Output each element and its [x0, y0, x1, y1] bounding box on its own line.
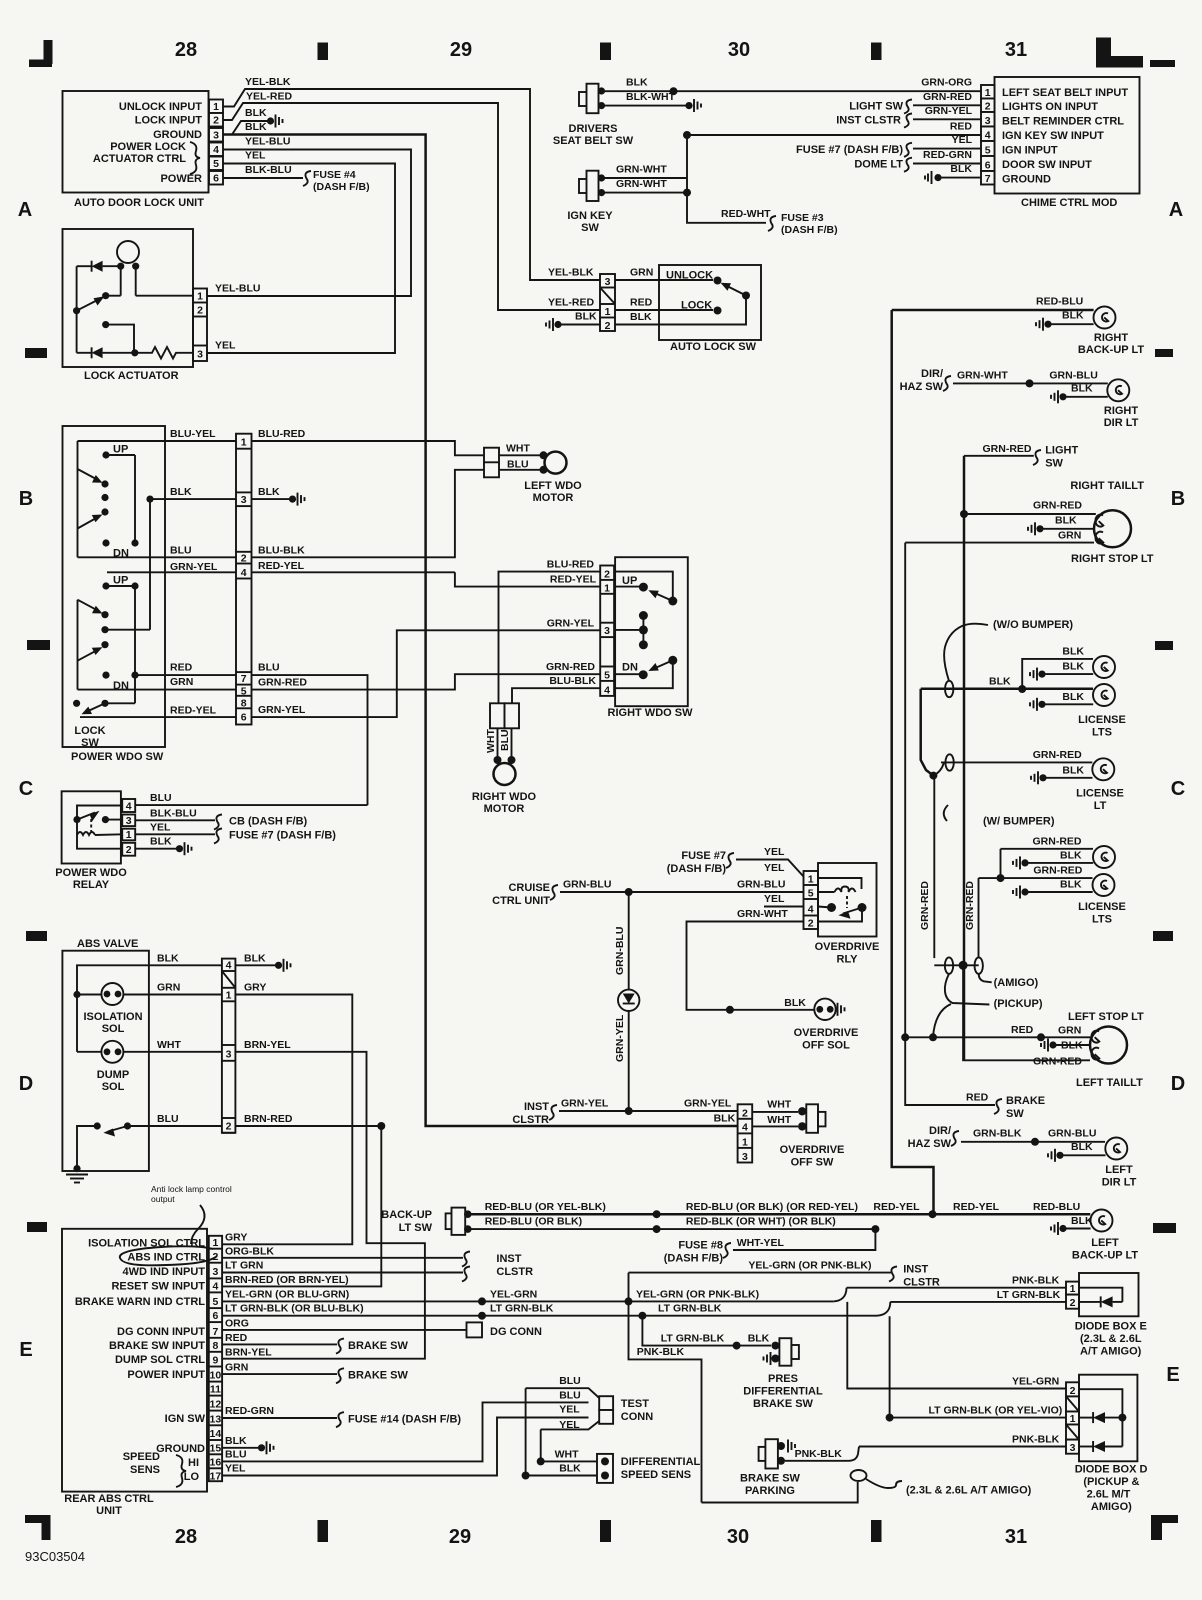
chime pin 5	[981, 141, 995, 156]
svg-text:BACK-UP LT: BACK-UP LT	[1078, 344, 1144, 356]
svg-text:DIFFERENTIAL: DIFFERENTIAL	[621, 1456, 701, 1468]
svg-text:BRN-YEL: BRN-YEL	[225, 1347, 272, 1359]
svg-text:DG CONN: DG CONN	[490, 1326, 542, 1338]
svg-text:4: 4	[226, 960, 232, 972]
od rly switch dots	[827, 903, 836, 912]
curve to PICKUP label	[945, 974, 990, 1005]
svg-text:2: 2	[213, 115, 219, 127]
wire BLK + ground right back-up	[1036, 318, 1052, 331]
edge bar right AB	[1155, 349, 1173, 357]
svg-text:1: 1	[985, 87, 991, 99]
svg-text:D: D	[19, 1073, 33, 1095]
svg-text:RIGHT WDO: RIGHT WDO	[472, 791, 537, 803]
wire BLK + ground left back-up	[1051, 1222, 1067, 1235]
wire GRN pin5 left	[78, 689, 237, 691]
svg-text:ORG-BLK: ORG-BLK	[225, 1245, 274, 1257]
svg-text:B: B	[19, 488, 33, 510]
svg-text:1: 1	[226, 989, 232, 1001]
dg conn box	[467, 1322, 483, 1337]
svg-text:12: 12	[210, 1399, 222, 1411]
svg-text:RED-BLU: RED-BLU	[1036, 296, 1083, 308]
svg-text:5: 5	[212, 1296, 218, 1308]
junction dot BLK	[146, 496, 153, 503]
wire WHT dump sol to pin3	[77, 1051, 101, 1053]
svg-text:2: 2	[985, 100, 991, 112]
svg-text:RED-YEL: RED-YEL	[258, 560, 305, 572]
svg-text:1: 1	[197, 291, 203, 303]
auto door lock unit box	[63, 91, 209, 193]
wire BRN-RED pin2 down to rear abs pin4	[222, 1126, 381, 1286]
svg-text:RIGHT WDO SW: RIGHT WDO SW	[608, 707, 694, 719]
svg-text:AMIGO): AMIGO)	[1091, 1501, 1132, 1513]
svg-text:E: E	[1166, 1364, 1179, 1386]
svg-text:BLK: BLK	[245, 121, 267, 133]
wire RED to chime pin4	[687, 134, 981, 136]
wire GRN-YEL pin6 to right wdo sw pin3	[252, 630, 601, 717]
svg-text:17: 17	[210, 1470, 222, 1482]
svg-text:RED: RED	[225, 1332, 248, 1344]
svg-text:BLK-BLU: BLK-BLU	[150, 807, 197, 819]
svg-text:GRN-BLK: GRN-BLK	[973, 1127, 1022, 1139]
svg-text:GRN-BLU: GRN-BLU	[563, 879, 611, 891]
wire GRN-RED to right stop lt	[964, 513, 1096, 515]
wire BLK pin15 to ground	[222, 1447, 258, 1449]
svg-text:WHT: WHT	[555, 1448, 579, 1460]
right wdo motor connector cells	[490, 703, 505, 728]
svg-text:FUSE #4: FUSE #4	[313, 169, 356, 181]
svg-text:BLK: BLK	[170, 486, 192, 498]
svg-text:DOME LT: DOME LT	[854, 159, 903, 171]
svg-text:3: 3	[212, 1266, 218, 1278]
svg-text:6: 6	[213, 173, 219, 185]
svg-text:YEL-BLK: YEL-BLK	[548, 267, 594, 279]
svg-text:BELT REMINDER CTRL: BELT REMINDER CTRL	[1002, 116, 1124, 128]
rws middle chain dots	[639, 611, 648, 620]
svg-text:YEL-BLK: YEL-BLK	[245, 76, 291, 88]
wire BLU-RED right wdo sw pin2 from right motor WHT	[499, 572, 601, 704]
svg-text:SENS: SENS	[130, 1464, 160, 1476]
inst clstr braces mid	[462, 1252, 470, 1267]
wire RED-GRN pin13 to fuse14	[222, 1417, 337, 1419]
svg-text:(W/ BUMPER): (W/ BUMPER)	[983, 816, 1055, 828]
svg-text:LT: LT	[1094, 800, 1107, 812]
wire YEL fuse7 to od rly pin1	[736, 860, 804, 877]
edge bar left CD	[26, 931, 47, 941]
svg-text:5: 5	[985, 144, 991, 156]
svg-text:GRN-RED: GRN-RED	[1033, 835, 1082, 847]
svg-text:BRN-RED (OR BRN-YEL): BRN-RED (OR BRN-YEL)	[225, 1274, 349, 1286]
license lamp 1	[1093, 656, 1115, 678]
wire YEL pin5	[207, 164, 395, 354]
link vertical	[134, 455, 136, 543]
diode box D internals	[1079, 1389, 1122, 1446]
svg-text:PNK-BLK: PNK-BLK	[795, 1448, 843, 1460]
svg-text:GRN-BLU: GRN-BLU	[737, 879, 785, 891]
abs connector column	[222, 959, 236, 1133]
svg-text:POWER INPUT: POWER INPUT	[127, 1369, 205, 1381]
fuse #4 squiggle	[303, 171, 311, 186]
chime ctrl mod box	[995, 77, 1140, 194]
svg-text:5: 5	[213, 158, 219, 170]
svg-text:1: 1	[742, 1136, 748, 1148]
svg-text:ORG: ORG	[225, 1317, 249, 1329]
junction dot license/pickup	[929, 772, 937, 780]
junction dot on rail at taillt row	[960, 510, 968, 518]
svg-text:BLK: BLK	[245, 107, 267, 119]
left wdo motor connector cells	[484, 448, 499, 464]
light sw rail	[963, 456, 966, 1060]
svg-text:IGN KEY SW INPUT: IGN KEY SW INPUT	[1002, 130, 1104, 142]
svg-text:(DASH F/B): (DASH F/B)	[664, 1253, 724, 1265]
svg-text:D: D	[1171, 1073, 1185, 1095]
rear abs pin 15	[209, 1442, 222, 1454]
od off sw pin 4	[738, 1121, 753, 1133]
internal wires lock actuator	[77, 265, 92, 267]
svg-text:FUSE #7: FUSE #7	[681, 850, 726, 862]
wire PNK-BLK from brake sw parking	[785, 1447, 859, 1461]
wire BLK seat belt to chime pin1	[604, 90, 981, 92]
brake sw parking connector	[759, 1439, 785, 1468]
junction dot ign key	[683, 189, 691, 197]
svg-text:(DASH F/B): (DASH F/B)	[781, 224, 838, 236]
svg-text:YEL-GRN: YEL-GRN	[1012, 1376, 1059, 1388]
svg-text:DRIVERS: DRIVERS	[569, 123, 618, 135]
svg-text:YEL: YEL	[215, 340, 236, 352]
svg-text:7: 7	[985, 173, 991, 185]
corner bracket top-left	[29, 40, 53, 67]
GRN-RED vertical from pickup dot	[933, 776, 935, 959]
svg-text:CHIME CTRL MOD: CHIME CTRL MOD	[1021, 197, 1117, 209]
svg-text:BLU-BLK: BLU-BLK	[258, 544, 305, 556]
svg-text:DOOR SW INPUT: DOOR SW INPUT	[1002, 159, 1092, 171]
svg-text:BLK: BLK	[1071, 382, 1093, 394]
svg-text:2: 2	[241, 553, 247, 565]
oval connector on license single row	[945, 754, 953, 770]
svg-text:GRN: GRN	[157, 982, 180, 994]
oval left (pickup)	[945, 957, 953, 973]
svg-text:ABS VALVE: ABS VALVE	[77, 938, 138, 950]
svg-text:RIGHT STOP LT: RIGHT STOP LT	[1071, 553, 1154, 565]
wire from isolated contact	[106, 325, 134, 353]
svg-text:POWER LOCK: POWER LOCK	[110, 141, 186, 153]
svg-text:LIGHT: LIGHT	[1045, 445, 1078, 457]
svg-text:LTS: LTS	[1092, 727, 1112, 739]
svg-text:PARKING: PARKING	[745, 1485, 795, 1497]
svg-text:LOCK ACTUATOR: LOCK ACTUATOR	[84, 370, 179, 382]
svg-text:A: A	[18, 199, 32, 221]
wire RED-YEL pin4 right to right wdo sw pin1	[252, 571, 455, 573]
wire GRN pin3 to unlock contact	[615, 279, 713, 281]
wire BLK-BLU relay pin3 to CB	[135, 819, 215, 821]
svg-text:BLK: BLK	[258, 486, 280, 498]
rear abs pin 9	[209, 1355, 222, 1367]
svg-text:GRN-RED: GRN-RED	[258, 677, 307, 689]
svg-text:RIGHT: RIGHT	[1094, 332, 1129, 344]
callout curve to ABS IND CTRL	[191, 1205, 205, 1244]
license lower feed: lamp1	[1001, 848, 1094, 850]
ground at brake sw parking	[788, 1440, 795, 1453]
svg-text:OVERDRIVE: OVERDRIVE	[815, 941, 880, 953]
wire WHT to left motor	[499, 454, 542, 456]
svg-text:MOTOR: MOTOR	[484, 803, 525, 815]
auto lock sw pin column	[600, 274, 615, 331]
diode box E box	[1079, 1273, 1139, 1316]
wire BLK-BLU pin6 to fuse 4	[223, 177, 303, 179]
svg-text:BLU-YEL: BLU-YEL	[170, 428, 216, 440]
amigo junction row	[934, 964, 978, 966]
svg-text:GROUND: GROUND	[1002, 174, 1051, 186]
brace light sw	[1033, 450, 1041, 465]
wire BLK chime pin7 from ground	[941, 177, 981, 179]
svg-text:HAZ SW: HAZ SW	[900, 381, 944, 393]
overdrive off sw pin column	[738, 1104, 753, 1162]
wire YEL chime pin5 from fuse7	[913, 148, 981, 150]
svg-text:(PICKUP &: (PICKUP &	[1083, 1476, 1139, 1488]
vertical link wire	[687, 135, 766, 223]
svg-text:LOCK: LOCK	[74, 725, 105, 737]
svg-text:RED-BLK (OR WHT) (OR BLK): RED-BLK (OR WHT) (OR BLK)	[686, 1216, 836, 1228]
od rly dashed actuator link	[846, 896, 848, 908]
svg-text:DIODE BOX E: DIODE BOX E	[1075, 1321, 1147, 1333]
wire GRN pin10 to brake sw	[222, 1373, 337, 1375]
svg-text:2: 2	[212, 1251, 218, 1263]
svg-text:DIR LT: DIR LT	[1102, 1177, 1137, 1189]
svg-text:DIR/: DIR/	[929, 1125, 951, 1137]
svg-text:BLK: BLK	[1060, 849, 1082, 861]
svg-text:PNK-BLK: PNK-BLK	[1012, 1275, 1060, 1287]
wire GRN-RED to left taillt	[963, 965, 1090, 1060]
svg-text:DIODE BOX D: DIODE BOX D	[1075, 1464, 1148, 1476]
svg-text:1: 1	[212, 1237, 218, 1249]
svg-text:YEL: YEL	[225, 1463, 246, 1475]
svg-text:BLU-RED: BLU-RED	[258, 428, 306, 440]
lt grn-blk branch down to diode box D pin1	[889, 1316, 891, 1417]
rws pivot1 dot + arm	[668, 597, 677, 606]
svg-text:4: 4	[212, 1280, 218, 1292]
svg-text:6: 6	[241, 712, 247, 724]
svg-text:GRN-RED: GRN-RED	[983, 443, 1032, 455]
tick bottom 1	[318, 1520, 329, 1542]
svg-text:YEL: YEL	[150, 821, 171, 833]
svg-text:WHT: WHT	[485, 729, 497, 753]
svg-text:LT GRN-BLK: LT GRN-BLK	[661, 1333, 725, 1345]
od rly internals: pin1 to coil	[818, 878, 862, 889]
svg-text:GRN: GRN	[1058, 1025, 1081, 1037]
left motor terminal dots	[540, 451, 548, 459]
brace brake sw	[994, 1099, 1002, 1114]
svg-text:YEL: YEL	[764, 846, 785, 858]
svg-text:LT SW: LT SW	[399, 1222, 433, 1234]
svg-text:CRUISE: CRUISE	[508, 882, 550, 894]
dump sol circle	[101, 1041, 123, 1063]
edge bar right top	[1150, 60, 1175, 67]
wire YEL to od rly pin4	[764, 906, 804, 908]
rear abs pin 1	[209, 1237, 222, 1249]
diode bottom (pointing left)	[92, 347, 103, 358]
svg-text:1: 1	[126, 829, 132, 841]
rws pin 1	[600, 582, 614, 594]
diode box E pins	[1066, 1282, 1079, 1296]
svg-text:LOCK INPUT: LOCK INPUT	[135, 115, 203, 127]
svg-text:9: 9	[212, 1355, 218, 1367]
diagonal cell	[600, 288, 615, 305]
svg-text:31: 31	[1005, 39, 1027, 61]
power wdo relay box	[62, 791, 121, 863]
svg-text:GRN-YEL: GRN-YEL	[547, 617, 595, 629]
svg-text:4: 4	[126, 801, 132, 813]
svg-text:BLU-RED: BLU-RED	[547, 559, 595, 571]
edge bar right CD	[1153, 931, 1173, 941]
rws pin 2	[600, 568, 614, 580]
svg-text:SOL: SOL	[102, 1081, 125, 1093]
chain dots	[101, 480, 108, 487]
svg-text:GRY: GRY	[244, 982, 266, 994]
svg-text:LT GRN-BLK: LT GRN-BLK	[658, 1303, 722, 1315]
svg-text:28: 28	[175, 1526, 197, 1548]
svg-text:TEST: TEST	[621, 1398, 649, 1410]
svg-text:SEAT BELT SW: SEAT BELT SW	[553, 135, 634, 147]
right back-up lt lamp	[1094, 307, 1116, 329]
svg-text:GRN-WHT: GRN-WHT	[957, 369, 1008, 381]
svg-text:4WD IND INPUT: 4WD IND INPUT	[123, 1266, 206, 1278]
wire RED-YEL pin6 left	[80, 716, 236, 718]
junction dot on BRN-RED	[377, 1122, 385, 1130]
junction dot rail/left stop	[901, 1033, 909, 1041]
svg-text:13: 13	[210, 1413, 222, 1425]
svg-text:BLK: BLK	[559, 1463, 581, 1475]
curve pickup branch to left stop row	[933, 1004, 951, 1037]
svg-text:5: 5	[808, 888, 814, 900]
junction dot on rail	[73, 991, 80, 998]
wire BLU-RED pin1 right to left motor WHT	[252, 441, 485, 455]
ground at pres diff brake sw	[764, 1352, 771, 1365]
svg-text:LTS: LTS	[1092, 914, 1112, 926]
svg-text:GRN-YEL: GRN-YEL	[170, 561, 218, 573]
rear abs pin 16	[209, 1456, 222, 1468]
switch arm arrow	[77, 296, 105, 311]
svg-text:4: 4	[985, 129, 991, 141]
rws pin 5	[600, 667, 614, 682]
oval right (amigo)	[975, 957, 983, 973]
BLK ground license 2	[1030, 698, 1046, 711]
svg-text:E: E	[19, 1339, 32, 1361]
svg-text:ABS IND CTRL: ABS IND CTRL	[127, 1251, 205, 1263]
svg-text:BLU: BLU	[150, 792, 172, 804]
svg-text:LO: LO	[184, 1471, 200, 1483]
wire GRN-WHT od rly pin2 to off sol	[687, 922, 814, 1010]
rear abs pin column	[209, 1236, 222, 1481]
svg-text:LEFT TAILLT: LEFT TAILLT	[1076, 1077, 1143, 1089]
svg-text:GRN-BLU: GRN-BLU	[614, 927, 626, 975]
junction dot od off sol row	[726, 1006, 734, 1014]
rear abs pin 4	[209, 1280, 222, 1292]
svg-text:BRAKE SW: BRAKE SW	[740, 1473, 801, 1485]
rear abs pin 3	[209, 1266, 222, 1278]
edge bar left BC	[27, 640, 50, 650]
fuse #3 squiggle	[768, 216, 776, 231]
svg-text:FUSE #8: FUSE #8	[678, 1240, 723, 1252]
tick bottom 2	[871, 1520, 882, 1542]
relay pin 1	[122, 829, 135, 842]
rws pin3 wire	[614, 629, 643, 631]
svg-text:GRN-WHT: GRN-WHT	[616, 164, 667, 176]
svg-text:29: 29	[449, 1526, 471, 1548]
svg-text:BLU: BLU	[559, 1390, 581, 1402]
svg-text:RED-YEL: RED-YEL	[550, 574, 597, 586]
svg-text:LICENSE: LICENSE	[1076, 788, 1124, 800]
inst clstr brace right	[889, 1267, 897, 1282]
svg-text:C: C	[19, 778, 33, 800]
power wdo sw box	[63, 426, 166, 747]
svg-text:14: 14	[210, 1428, 222, 1440]
diode box D pins	[1066, 1382, 1079, 1397]
auto door lock unit pin 4	[209, 143, 223, 157]
wire GRN-WHT ign key top	[604, 177, 687, 179]
svg-text:3: 3	[604, 625, 610, 637]
svg-text:POWER WDO SW: POWER WDO SW	[71, 751, 164, 763]
svg-text:YEL: YEL	[245, 150, 266, 162]
svg-text:CB (DASH F/B): CB (DASH F/B)	[229, 815, 308, 827]
power wdo connector column	[236, 434, 252, 725]
svg-text:INST CLSTR: INST CLSTR	[836, 115, 901, 127]
rws pin5 wire to contact	[614, 673, 643, 675]
wire BLK + ground right dir	[1051, 390, 1067, 403]
auto door lock unit pin 5	[209, 157, 223, 171]
svg-text:BLK: BLK	[630, 311, 652, 323]
ground at auto door lock pin3	[267, 115, 283, 128]
license lower lamp 2	[1093, 874, 1115, 896]
rear abs pin 12	[209, 1399, 222, 1411]
svg-text:5: 5	[241, 685, 247, 697]
abs conn pin 3	[222, 1045, 236, 1061]
wire BLK pin3 long run (down to overdrive off sw)	[223, 135, 738, 1127]
junction dot bottom	[131, 349, 138, 356]
svg-text:28: 28	[175, 39, 197, 61]
relay coil	[77, 832, 95, 835]
unlock contact dot	[714, 277, 722, 285]
ground at relay pin2	[176, 842, 192, 855]
od rly pin 4	[804, 904, 819, 916]
svg-text:CLSTR: CLSTR	[512, 1114, 549, 1126]
lock actuator motor circle	[117, 241, 139, 263]
svg-text:SW: SW	[581, 222, 599, 234]
curve to AMIGO label	[979, 974, 992, 983]
svg-text:GROUND: GROUND	[156, 1443, 205, 1455]
svg-text:MOTOR: MOTOR	[533, 492, 574, 504]
svg-text:30: 30	[727, 1526, 749, 1548]
abs conn diagonal cell	[222, 971, 236, 988]
wire RED-BLK row 2	[470, 1228, 875, 1230]
ign key sw connector	[579, 171, 605, 201]
oval on brake sw parking wire	[851, 1470, 867, 1481]
svg-text:IGN SW: IGN SW	[165, 1413, 206, 1425]
license lamp 2	[1093, 684, 1115, 706]
svg-text:YEL-RED: YEL-RED	[246, 91, 293, 103]
svg-text:GRN-YEL: GRN-YEL	[258, 704, 306, 716]
svg-text:GRN-RED: GRN-RED	[919, 881, 931, 930]
svg-text:A/T AMIGO): A/T AMIGO)	[1080, 1346, 1142, 1358]
svg-text:YEL: YEL	[559, 1403, 580, 1415]
auto lock sw pin 1	[600, 304, 615, 318]
wire GRN to right stop	[905, 543, 966, 1105]
od rly pivot to pin2	[818, 908, 862, 922]
wire GRN-YEL inst clstr to od off sw pin2	[559, 1110, 738, 1112]
abs conn pin 4	[222, 960, 236, 972]
wire RED-BLU row to left back-up lt	[470, 1213, 1090, 1216]
wire BLU to left motor	[499, 469, 542, 471]
rear abs ctrl unit box	[62, 1229, 207, 1492]
rws internals: pin2 wire to pivot	[614, 572, 673, 597]
